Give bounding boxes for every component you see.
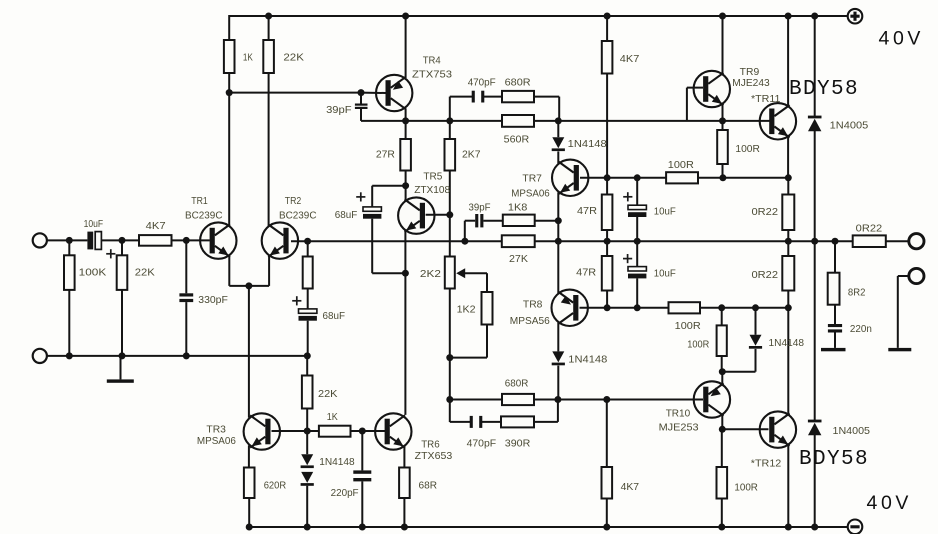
node lower rail / 100K (66, 352, 73, 359)
transistor TR9 (694, 71, 730, 107)
label 100R TR10col (687, 340, 709, 351)
wire D8 to -40V rail (814, 435, 816, 527)
wire 68uF top tap (372, 185, 405, 187)
label BDY58 upper (789, 78, 859, 101)
label 47R upper (577, 206, 597, 217)
node top rail / 22K (265, 13, 272, 20)
minus sign in -40V terminal (850, 525, 859, 528)
wire rail to TR8 top (557, 241, 559, 293)
label 22K input (135, 267, 155, 278)
svg-text:BDY58: BDY58 (789, 78, 859, 101)
label TR8 (523, 299, 543, 310)
wire 39pF2 branch riser (464, 221, 466, 242)
label 0R22 output (856, 224, 883, 235)
resistor R 100K (64, 255, 75, 290)
label TR6 (421, 440, 440, 451)
svg-text:4K7: 4K7 (620, 54, 640, 65)
label 220pF (331, 488, 359, 499)
svg-text:10uF: 10uF (654, 269, 676, 280)
label 22K bottom (318, 389, 338, 400)
wire 330pF top lead (185, 240, 187, 293)
svg-text:47R: 47R (576, 268, 596, 279)
wire 68uF to TR5 emitter line (372, 272, 405, 274)
svg-text:10uF: 10uF (654, 207, 676, 218)
diode D5 1N4148 (TR10) (749, 335, 762, 349)
label TR1 (191, 196, 208, 207)
wire 1K2 wiper arm (462, 272, 487, 274)
resistor R 2K2 preset (445, 257, 455, 289)
label 10uF input (84, 219, 104, 230)
node TR2 base / feedback (304, 238, 311, 245)
wire tail to TR3 collector (248, 286, 250, 418)
node -rail / 620R (246, 524, 253, 531)
resistor R 4K7 (top) (602, 41, 613, 74)
capacitor C 220pF (353, 470, 371, 481)
capacitor C 39pF (TR4) (355, 104, 368, 110)
wire 1K bottom to TR1 collector (228, 73, 230, 226)
input terminal (ground) (33, 349, 47, 363)
wire input line left (47, 239, 88, 241)
wire 100K top lead (68, 240, 70, 255)
label ZTX108 (414, 185, 450, 196)
node rail / 1N4005 (811, 238, 818, 245)
ground (input) (107, 379, 134, 382)
svg-text:27R: 27R (376, 149, 395, 160)
node -rail / 68R (401, 524, 408, 531)
svg-text:TR3: TR3 (206, 424, 226, 435)
wire 22K column to top rail (268, 15, 270, 40)
wire 39pF2 left lead (465, 220, 475, 222)
svg-text:39pF: 39pF (469, 202, 491, 213)
node TR11 emitter / 0R22a (785, 174, 792, 181)
label MJE243 (732, 78, 770, 89)
wire TR2 emitter down (268, 256, 270, 286)
node rail / 10uF (634, 238, 641, 245)
wire 100R TR10col column (721, 308, 723, 372)
wire 100K bottom lead (68, 290, 70, 356)
svg-text:MPSA56: MPSA56 (510, 316, 550, 327)
wire TR1 emitter down (228, 256, 230, 286)
wire 8R2 top lead (834, 241, 836, 273)
resistor R 47R (upper) (602, 195, 613, 231)
wire 68uF bottom lead (371, 219, 373, 274)
output terminal (speaker -) (909, 268, 924, 283)
wire 620R to -rail (248, 498, 250, 527)
wire emitter join horizontal (229, 285, 269, 287)
diode D2 1N4148 (TR8 emitter) (552, 351, 565, 365)
wire 4K7b bottom lead (606, 499, 608, 528)
node -rail / diodes (304, 524, 311, 531)
capacitor C 220n (828, 324, 842, 333)
wire 22Kb lower rail lead (306, 356, 308, 376)
wire 330pF bottom lead (185, 302, 187, 356)
transistor TR8 (552, 290, 588, 326)
wire TR4 emitter to top rail (405, 15, 407, 78)
svg-text:470pF: 470pF (468, 77, 496, 88)
node TR10 collector / D5 (719, 368, 726, 375)
wire TR3 base stub (272, 430, 308, 432)
label TR3 (206, 424, 226, 435)
label 8R2 (848, 287, 866, 298)
wire output rail to D8 1N4005 (814, 241, 816, 420)
node lower rail / 330pF (183, 352, 190, 359)
label 4K7 input (146, 221, 166, 232)
wire speaker return h (898, 275, 909, 277)
node top rail / 4K7 (604, 13, 611, 20)
node TR4 base / 39pF (358, 89, 365, 96)
node rail / TR7-TR8 (555, 238, 562, 245)
diode D3 1N4148 (bias upper) (301, 454, 314, 468)
label 0R22 upper (752, 207, 779, 218)
label 100R lower-h (675, 321, 701, 332)
label +40V (879, 27, 925, 49)
label TR5 (423, 172, 442, 183)
node top rail / TR9 (719, 13, 726, 20)
wire 68uF top lead (371, 186, 373, 207)
wire 100Rb to -rail (721, 499, 723, 528)
label 22K (283, 53, 304, 64)
svg-text:TR10: TR10 (666, 408, 691, 419)
wire 1K bottom link (307, 430, 385, 432)
node 680R2 / D2 (554, 396, 561, 403)
diode D8 1N4005 (lower) (808, 420, 822, 436)
wire TR9 emitter/100R column (722, 105, 724, 178)
transistor TR6 (375, 413, 411, 449)
wire TR4 base stub (361, 92, 386, 94)
transistor TR4 (376, 75, 412, 111)
svg-text:620R: 620R (264, 481, 287, 492)
polarity + for 68uF TR5 (356, 192, 365, 201)
resistor R 390R (501, 416, 534, 427)
input terminal (signal) (33, 233, 47, 247)
svg-text:0R22: 0R22 (752, 207, 779, 218)
label 1N4005 top (830, 121, 869, 132)
node -rail / TR12 (785, 524, 792, 531)
svg-text:0R22: 0R22 (752, 270, 779, 281)
wire TR5 base stub (426, 214, 450, 216)
label 68uF top (335, 210, 358, 221)
wire TR8 base line (580, 307, 789, 309)
svg-text:0R22: 0R22 (856, 224, 883, 235)
node rail / 0R22 (785, 238, 792, 245)
svg-text:TR5: TR5 (423, 172, 442, 183)
capacitor C 470pF (lower) (470, 416, 483, 428)
capacitor C 330pF (179, 293, 193, 302)
wire +rail to D7 1N4005 (814, 15, 816, 116)
wire -40V rail (249, 526, 848, 528)
svg-text:27K: 27K (509, 254, 528, 265)
svg-text:1N4148: 1N4148 (769, 338, 805, 349)
node lower rail / 22K (119, 352, 126, 359)
label 680R top (505, 77, 531, 88)
transistor TR1 (200, 222, 236, 258)
svg-text:TR7: TR7 (522, 174, 542, 185)
resistor R 22K (top) (263, 40, 274, 73)
svg-text:*TR12: *TR12 (751, 458, 782, 469)
label 68R (419, 481, 438, 492)
node TR3 base / 1K (304, 428, 311, 435)
label MPSA06 TR7 (511, 189, 550, 200)
wire 1K2 bottom dogleg h (450, 357, 487, 359)
svg-text:22K: 22K (283, 53, 304, 64)
wire TR11 collector to top rail (787, 15, 789, 107)
node -rail / 4K7b (603, 524, 610, 531)
label 1K2 (457, 305, 476, 316)
node TR8 base rail / 47R (604, 304, 611, 311)
label BC239C TR1 (185, 210, 223, 221)
label 1N4148 D5 (769, 338, 805, 349)
wire 39pF2 to 1K8 (483, 220, 502, 222)
label TR4 (423, 55, 441, 66)
svg-text:68R: 68R (419, 481, 438, 492)
wire 4K7b top lead (606, 400, 608, 468)
wire 390R branch riser (557, 400, 559, 422)
label ZTX653 (415, 451, 453, 462)
label 1K8 (508, 202, 528, 213)
svg-text:22K: 22K (318, 389, 338, 400)
label 68uF lower (323, 311, 346, 322)
wire TR9 base riser (686, 88, 688, 121)
label 27R (376, 149, 395, 160)
node TR5 collector / 68uF (402, 182, 409, 189)
node lower rail / 68uF2 (304, 352, 311, 359)
label 1K (243, 53, 253, 64)
wire 390R right (534, 421, 558, 423)
wire D4 to -rail (306, 486, 308, 527)
label *TR11 (751, 94, 781, 105)
wire 22Kb to TR3 base node (306, 409, 308, 432)
wire TR4 collector to 27R (405, 109, 407, 140)
output terminal (speaker +) (909, 234, 924, 249)
node rail / 8R2 (832, 238, 839, 245)
node TR7 base rail / 4K7 (604, 174, 611, 181)
svg-text:100R: 100R (668, 160, 694, 171)
wire TR10 collector stub (721, 372, 723, 385)
wire TR12 emitter to -rail (787, 444, 789, 527)
label 0R22 lower (752, 270, 779, 281)
wire 47R top leads (606, 178, 608, 195)
wire y121 rail (TR4 col to TR9/TR11 base) (406, 120, 723, 122)
wire ground stub (120, 356, 122, 380)
label 47R lower (576, 268, 596, 279)
wire top +40V rail (229, 15, 848, 17)
power terminal +40V (848, 9, 863, 24)
label 39pF 2 (469, 202, 491, 213)
svg-text:4K7: 4K7 (146, 221, 166, 232)
wire input line right (101, 239, 209, 241)
node 1K8 / TR7 emitter (555, 217, 562, 224)
label TR7 (522, 174, 542, 185)
svg-text:ZTX753: ZTX753 (412, 70, 452, 81)
label BDY58 lower (799, 448, 869, 471)
label 1N4148 D2 (568, 354, 607, 365)
diode D1 1N4148 (TR7 collector) (552, 137, 565, 151)
node top rail / TR4 (402, 13, 409, 20)
wire 10uF1 bottom lead (636, 217, 638, 241)
resistor R 2K7 (445, 139, 456, 171)
node 0R22b / TR12 collector (785, 304, 792, 311)
resistor R 27K (502, 235, 535, 247)
wire 2K7 column upper (449, 121, 451, 139)
polarity + for 10uF upper (623, 192, 632, 201)
wire 1K mid to 68uF2 (307, 289, 309, 309)
svg-text:TR2: TR2 (285, 196, 302, 207)
label 390R (505, 439, 531, 450)
node -rail / 100Rb (718, 524, 725, 531)
preset wiper arrow for 2K2 (456, 268, 465, 278)
resistor R 100R (upper horizontal) (666, 172, 698, 183)
label 470pF lower (467, 439, 497, 450)
label 10uF upper (654, 207, 676, 218)
wire node A horizontal (1K/TR1 to TR4 base) (229, 92, 361, 94)
polarity + for 10uF lower (623, 254, 632, 263)
capacitor C 10uF input electrolytic (87, 232, 101, 250)
node TR10 emitter / TR12 base (719, 426, 726, 433)
svg-text:1N4005: 1N4005 (830, 121, 869, 132)
label 330pF (198, 295, 228, 306)
transistor TR11 (760, 103, 796, 139)
capacitor C 68uF (TR5) (363, 207, 381, 219)
label MJE253 (659, 423, 699, 434)
label 620R (264, 481, 287, 492)
transistor TR10 (694, 381, 730, 417)
resistor R 1K (top) (224, 40, 235, 73)
svg-text:100R: 100R (675, 321, 701, 332)
node input / 100K (66, 237, 73, 244)
node rail / 47R (604, 238, 611, 245)
plus sign in +40V terminal (850, 12, 859, 21)
svg-text:TR8: TR8 (523, 299, 543, 310)
node D5 top (752, 304, 759, 311)
wire 10uF2 top lead (636, 241, 638, 266)
wire 4K7 bottom column (606, 74, 608, 178)
node 680R2 rail / 4K7b (603, 396, 610, 403)
svg-text:TR6: TR6 (421, 440, 440, 451)
wire 220n to ground (834, 333, 836, 348)
label *TR12 (751, 458, 782, 469)
wire TR8 bottom to D2 (557, 323, 559, 352)
wire 470pF branch right riser (558, 97, 560, 121)
node TR9 emitter / 100R (719, 117, 726, 124)
resistor R 100R (TR9 emitter) (717, 130, 728, 164)
wire 10uF2 bottom lead (636, 278, 638, 307)
wire 22Kin top lead (121, 240, 123, 255)
polarity + for 10uF input (106, 249, 115, 258)
resistor R 1K (mid) (303, 257, 313, 289)
svg-text:470pF: 470pF (467, 439, 497, 450)
resistor R 0R22 (upper) (782, 195, 794, 231)
svg-text:220n: 220n (850, 324, 872, 335)
svg-text:BDY58: BDY58 (799, 448, 869, 471)
resistor R 8R2 (828, 273, 840, 305)
svg-text:39pF: 39pF (326, 105, 352, 116)
label 560R (504, 134, 530, 145)
label ZTX753 (412, 70, 452, 81)
svg-text:8R2: 8R2 (848, 287, 866, 298)
resistor R 1K8 (503, 215, 535, 226)
wire 10uF1 top lead (636, 178, 638, 205)
transistor TR2 (262, 222, 298, 258)
wire 1K column to top rail (228, 15, 230, 40)
svg-text:22K: 22K (135, 267, 155, 278)
wire TR5 base node to 2K2 (449, 215, 451, 257)
wire 22Kin bottom lead (121, 290, 123, 356)
resistor R 27R (400, 139, 411, 171)
label 4K7 top (620, 54, 640, 65)
resistor R 22K (input) (117, 255, 128, 290)
svg-text:MPSA06: MPSA06 (197, 436, 236, 447)
wire 22K bottom to TR2 collector (268, 73, 270, 226)
node 680R2 branch left (446, 396, 453, 403)
label 39pF TR4 (326, 105, 352, 116)
label TR2 (285, 196, 302, 207)
svg-text:1N4148: 1N4148 (319, 457, 355, 468)
svg-text:TR1: TR1 (191, 196, 208, 207)
resistor R 560R (502, 115, 534, 127)
label 1N4148 bias (319, 457, 355, 468)
svg-text:100R: 100R (735, 144, 760, 155)
wire 47R bottom leads (606, 291, 608, 308)
label 680R lower (505, 379, 529, 390)
wire 470pF branch left riser (449, 97, 451, 122)
svg-text:40V: 40V (867, 492, 913, 514)
label MPSA56 (510, 316, 550, 327)
resistor R 1K (bottom) (319, 426, 351, 437)
node 2K2 / 1K2 bottom (446, 354, 453, 361)
wire TR7 base line (580, 177, 788, 179)
wire 470pF to 680R (483, 96, 502, 98)
label 1N4005 lower (833, 426, 871, 437)
wire 1K2 bottom dogleg v (486, 325, 488, 358)
capacitor C 39pF (TR5/TR7) (475, 214, 483, 227)
wire 0R22a column (787, 178, 789, 241)
svg-text:100R: 100R (734, 482, 758, 493)
wire 1K mid top lead (307, 241, 309, 256)
node 470pF branch left (446, 117, 453, 124)
label 220n (850, 324, 872, 335)
node TR1-TR2 emitters (245, 282, 252, 289)
wire D5 bottom lead (755, 349, 757, 372)
resistor R 100R (TR10 collector) (717, 325, 727, 356)
wire 1K8 to TR7 emitter node (535, 220, 559, 222)
resistor R 22K (bottom) (302, 376, 313, 409)
node TR6 base / 220pF (359, 428, 366, 435)
resistor R 4K7 (bottom) (602, 467, 613, 499)
wire 470pF branch top left (450, 96, 473, 98)
wire main output rail (308, 240, 909, 242)
resistor R 680R (lower) (502, 394, 534, 405)
svg-text:1K8: 1K8 (508, 202, 528, 213)
wire 2K2 bottom column (449, 289, 451, 423)
svg-text:68uF: 68uF (335, 210, 358, 221)
wire TR2 base to rail node (291, 240, 308, 242)
svg-text:ZTX653: ZTX653 (415, 451, 453, 462)
resistor R 620R (244, 468, 255, 499)
wire D2 to 680R2 node (557, 366, 559, 400)
resistor R 0R22 (output) (853, 235, 886, 247)
node TR1 base / 4K7 (183, 237, 190, 244)
wire lower input rail (47, 355, 308, 357)
wire 8R2 to 220n (834, 305, 836, 324)
capacitor C 68uF (feedback) (299, 309, 317, 321)
wire 39pF to TR4 collector node (361, 120, 406, 122)
label 4K7 bottom (621, 482, 640, 493)
node TR5 base / 2K7 (446, 211, 453, 218)
transistor TR7 (552, 160, 588, 196)
node input / 22K (119, 237, 126, 244)
svg-text:1K: 1K (327, 412, 338, 423)
node A 1K-TR1-TR4 (226, 89, 233, 96)
